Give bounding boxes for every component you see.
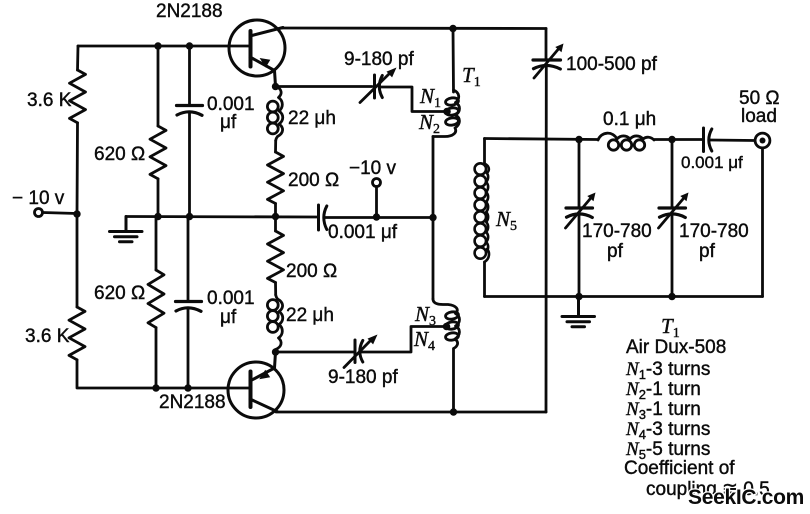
wire 620 bottom lead upper	[155, 217, 158, 271]
svg-text:SeekIC.com: SeekIC.com	[688, 486, 804, 509]
transformer T1 secondary N5	[483, 139, 486, 164]
wire R6 to L2	[274, 283, 277, 296]
wire left rail upper	[76, 46, 79, 70]
wire R5 to bus	[274, 204, 277, 217]
node bus 620	[154, 213, 161, 220]
node tap N3N4	[443, 323, 451, 331]
node bus feed	[429, 214, 436, 221]
svg-text:pf: pf	[699, 241, 716, 262]
svg-text:μf: μf	[220, 307, 237, 328]
svg-text:2N2188: 2N2188	[156, 1, 223, 22]
wire bus to R6	[274, 217, 277, 232]
wire C1 lead upper	[188, 46, 191, 105]
ground G1	[110, 217, 143, 242]
wire N5 top out	[485, 139, 599, 140]
terminal 50 ohm load	[755, 133, 770, 148]
wire top base rail Q1	[78, 45, 249, 48]
wire left rail middle	[76, 123, 79, 307]
svg-text:− 10 v: − 10 v	[12, 188, 65, 209]
wire C2 lead upper	[187, 217, 190, 302]
arrow C4	[360, 72, 391, 103]
svg-text:9-180 pf: 9-180 pf	[344, 49, 414, 70]
svg-text:22 μh: 22 μh	[288, 108, 336, 129]
svg-text:0.001 μf: 0.001 μf	[681, 153, 743, 172]
inductor L1 22uh top	[267, 86, 282, 141]
svg-text:−10 v: −10 v	[349, 158, 397, 179]
svg-text:pf: pf	[607, 241, 624, 262]
svg-text:Coefficient of: Coefficient of	[624, 458, 735, 479]
wire C4 to tap N1N2	[381, 87, 448, 112]
node bus -10v	[373, 213, 380, 220]
svg-text:9-180 pf: 9-180 pf	[328, 367, 398, 388]
wire C9 to load	[710, 139, 755, 142]
svg-text:620 Ω: 620 Ω	[94, 144, 145, 165]
svg-text:μf: μf	[220, 112, 237, 133]
node tap N1N2	[443, 108, 451, 116]
wire L3 to C9	[654, 138, 702, 141]
wire 620 top lead upper	[157, 46, 160, 126]
wire C2 lead lower	[187, 308, 190, 388]
node out bottom C7	[575, 293, 582, 300]
resistor R1 3.6K top	[70, 70, 86, 123]
wire load down	[761, 148, 764, 297]
arrow Q2 emitter	[259, 370, 270, 380]
resistor R3 620 ohm top	[150, 126, 166, 179]
wire N5 bottom out	[485, 295, 763, 298]
wire 620 bottom lead lower	[155, 328, 158, 388]
wire -10v middle lead	[375, 187, 378, 218]
svg-text:100-500 pf: 100-500 pf	[566, 54, 658, 75]
wire emitter top feedback	[276, 85, 373, 88]
node out top C7	[575, 136, 582, 143]
svg-text:620 Ω: 620 Ω	[94, 283, 145, 304]
wire center bus right	[325, 216, 433, 219]
terminal -10v middle	[373, 179, 381, 187]
svg-text:22 μh: 22 μh	[286, 305, 334, 326]
node emitter top	[272, 83, 279, 90]
svg-text:3.6 K: 3.6 K	[27, 90, 72, 111]
wire C1 lead lower	[188, 112, 191, 217]
wire tank right vertical	[545, 66, 548, 412]
wire 620 top lead lower	[157, 179, 160, 217]
capacitor C7 170-780pf left	[578, 140, 581, 208]
capacitor C5 9-180pf bottom	[355, 340, 363, 363]
capacitor C1 0.001uf top-left	[177, 106, 203, 116]
wire center feed to N3	[432, 218, 435, 300]
terminal -10v left	[35, 209, 43, 217]
capacitor C2 0.001uf bottom-left	[176, 302, 202, 312]
capacitor C3 0.001uf coupling	[319, 205, 327, 230]
svg-text:170-780: 170-780	[582, 221, 652, 242]
arrow Q1 emitter	[260, 58, 271, 68]
wire -10v left lead	[43, 213, 78, 214]
inductor L3 0.1uh	[598, 133, 654, 150]
capacitor C6 100-500pf variable	[545, 29, 548, 60]
node base bottom 620	[152, 384, 159, 391]
node bus 200	[272, 213, 279, 220]
notes block	[624, 314, 770, 500]
capacitor C9 0.001uf output	[704, 128, 712, 152]
svg-text:170-780: 170-780	[679, 221, 749, 242]
capacitor C4 9-180pf top	[375, 75, 383, 98]
ground G2	[562, 297, 595, 327]
svg-text:2N2188: 2N2188	[159, 392, 226, 413]
wire N2 to center feed	[432, 137, 435, 218]
svg-text:3.6 K: 3.6 K	[25, 326, 70, 347]
transistor Q1 2N2188 top	[229, 20, 285, 86]
node base bottom C2	[184, 384, 191, 391]
node base top C1	[186, 42, 193, 49]
arrow C5	[344, 339, 372, 368]
inductor L2 22uh bottom	[267, 295, 282, 352]
node out top C8	[668, 136, 675, 143]
node emitter bottom	[272, 348, 279, 355]
node -10v left rail	[73, 210, 80, 217]
svg-text:0.001: 0.001	[207, 288, 255, 309]
wire collector bottom	[276, 411, 546, 414]
svg-text:load: load	[741, 106, 777, 127]
wire tank top vertical	[452, 29, 455, 93]
svg-text:Air Dux-508: Air Dux-508	[626, 337, 726, 358]
wire L1 to R5	[274, 141, 277, 153]
node base top 620	[154, 42, 161, 49]
wire center bus left	[126, 215, 317, 218]
transformer T1 primary N3 N4	[433, 299, 459, 412]
svg-text:0.1 μh: 0.1 μh	[603, 109, 656, 130]
svg-text:0.001 μf: 0.001 μf	[328, 222, 398, 243]
resistor R4 620 ohm bottom	[148, 270, 164, 328]
resistor R5 200 ohm top	[268, 152, 284, 204]
resistor R6 200 ohm bottom	[268, 231, 284, 283]
wire C5 to tap N3N4	[361, 327, 447, 353]
wire collector top	[281, 27, 546, 30]
wire emitter bottom feedback	[276, 351, 355, 354]
capacitor C8 170-780pf right	[671, 140, 674, 208]
node collector top T1	[449, 25, 456, 32]
resistor R2 3.6K bottom	[69, 307, 85, 360]
transistor Q2 2N2188 bottom	[228, 352, 284, 418]
node bus C1	[186, 213, 193, 220]
svg-text:200 Ω: 200 Ω	[286, 261, 337, 282]
wire left rail lower corner	[77, 360, 249, 388]
node out bottom C8	[668, 293, 675, 300]
svg-text:200 Ω: 200 Ω	[288, 170, 339, 191]
node collector bottom T1	[450, 408, 457, 415]
transformer T1 primary N1 N2	[433, 90, 459, 137]
